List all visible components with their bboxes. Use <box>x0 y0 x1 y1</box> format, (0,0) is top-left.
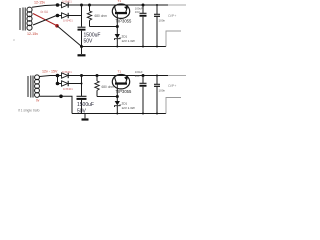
node B <box>56 14 60 18</box>
resistor R2 <box>95 81 99 90</box>
wire R1 to base node <box>90 26 118 28</box>
wire secondary bottom 0V <box>40 96 73 113</box>
wire secondary top to node D <box>40 76 57 77</box>
svg-text:1500uF: 1500uF <box>77 102 94 108</box>
svg-text:12v - 15V: 12v - 15V <box>42 70 58 74</box>
capacitor C2 100uF <box>142 4 145 7</box>
svg-text:12-15v: 12-15v <box>34 1 45 5</box>
svg-text:O/P+: O/P+ <box>168 84 176 88</box>
wire D2 output to rail riser <box>68 5 81 16</box>
svg-text:ZD1: ZD1 <box>122 101 128 105</box>
wire secondary top to node A <box>32 5 56 7</box>
node D <box>56 74 60 78</box>
wire secondary bottom to node B <box>33 16 57 26</box>
transformer TR2 primary <box>27 76 29 97</box>
diode D3 <box>58 75 62 77</box>
svg-text:100n: 100n <box>159 89 166 93</box>
svg-text:TIP3055: TIP3055 <box>116 89 133 94</box>
wire positive rail <box>68 4 168 6</box>
svg-text:4x 6A: 4x 6A <box>40 10 49 14</box>
svg-text:16V: 16V <box>135 10 140 14</box>
node base junction <box>116 25 119 28</box>
wire 0V rail <box>82 46 167 48</box>
capacitor C4 lower lead <box>81 100 83 114</box>
svg-text:1N5401: 1N5401 <box>62 70 72 74</box>
capacitor C1 lower lead <box>81 31 83 47</box>
capacitor C3 100n <box>156 4 158 6</box>
capacitor C4 1500uF lead <box>81 84 83 97</box>
wire Q1 base down <box>116 13 118 34</box>
svg-text:1N5401: 1N5401 <box>63 87 73 91</box>
svg-text:100n: 100n <box>159 19 166 23</box>
wire 0V rail (bottom circuit) <box>72 113 166 115</box>
transformer TR2 core <box>30 76 32 98</box>
wire positive rail output lead (gray) <box>168 75 186 77</box>
svg-text:ZD1: ZD1 <box>122 34 128 38</box>
wire Q2 base down <box>116 84 118 101</box>
junction dot C1/0V <box>80 45 83 48</box>
wire node D to node E <box>57 76 59 84</box>
diode D2 <box>58 15 62 17</box>
svg-text:O/P+: O/P+ <box>168 14 176 18</box>
wire positive rail output lead (gray) <box>168 4 186 6</box>
wire center tap diagonal to 0V rail <box>57 26 81 47</box>
capacitor C4 plates <box>77 95 87 97</box>
capacitor C1 1500uF lead <box>81 5 83 27</box>
diode D1 <box>58 4 62 6</box>
svg-text:TIP3055: TIP3055 <box>116 18 133 23</box>
resistor R1 lead <box>88 4 91 7</box>
wire 0V output lead (gray) <box>166 31 181 47</box>
svg-text:50V: 50V <box>84 39 94 45</box>
ground <box>84 114 86 119</box>
wire positive rail (bottom circuit) <box>68 75 168 77</box>
capacitor C5 100uF <box>142 74 145 77</box>
transistor Q1 TIP3055 <box>112 4 129 18</box>
transformer TR1 core <box>22 8 24 31</box>
transformer TR2 secondary winding <box>35 75 40 98</box>
wire D4 output to rail riser <box>68 76 81 84</box>
junction dot rail/riser <box>80 74 83 77</box>
capacitor C6 100n <box>156 75 158 77</box>
svg-text:12-15v: 12-15v <box>27 32 38 36</box>
svg-text:if 1 single trafo: if 1 single trafo <box>18 109 40 113</box>
wire 0V output lead (gray) <box>166 98 181 114</box>
zener diode ZD1 <box>115 34 120 39</box>
resistor R2 lead <box>96 74 99 77</box>
diode D4 <box>58 83 62 85</box>
ground <box>81 47 83 55</box>
node E <box>56 82 60 86</box>
svg-text:1N5401: 1N5401 <box>62 0 72 4</box>
transformer TR1 secondary winding <box>27 7 32 30</box>
junction dot rail/riser <box>80 4 83 7</box>
node base junction <box>116 95 119 98</box>
svg-text:0v: 0v <box>36 98 40 102</box>
resistor R1 <box>87 11 91 20</box>
svg-text:1500uF: 1500uF <box>84 32 101 38</box>
capacitor C1 plates <box>78 26 86 28</box>
node center-tap marker <box>59 95 63 99</box>
svg-text:680 ohm: 680 ohm <box>102 85 115 89</box>
node A <box>56 3 60 7</box>
svg-text:12V 1.3W: 12V 1.3W <box>122 106 135 110</box>
wire center tap (red) to node C <box>33 14 57 26</box>
svg-text:16V: 16V <box>135 74 140 78</box>
svg-text:12V 1.3W: 12V 1.3W <box>122 39 135 43</box>
wire R2 to base node <box>97 96 117 98</box>
zener diode ZD2 <box>115 101 120 106</box>
transistor Q2 TIP3055 <box>112 75 129 89</box>
svg-text:680 ohm: 680 ohm <box>95 14 108 18</box>
svg-text:1N5401: 1N5401 <box>63 19 73 23</box>
svg-text:T1: T1 <box>118 0 122 3</box>
node C (center tap, red) <box>55 24 59 28</box>
svg-text:T1: T1 <box>118 69 122 73</box>
transformer TR1 primary <box>19 8 21 30</box>
